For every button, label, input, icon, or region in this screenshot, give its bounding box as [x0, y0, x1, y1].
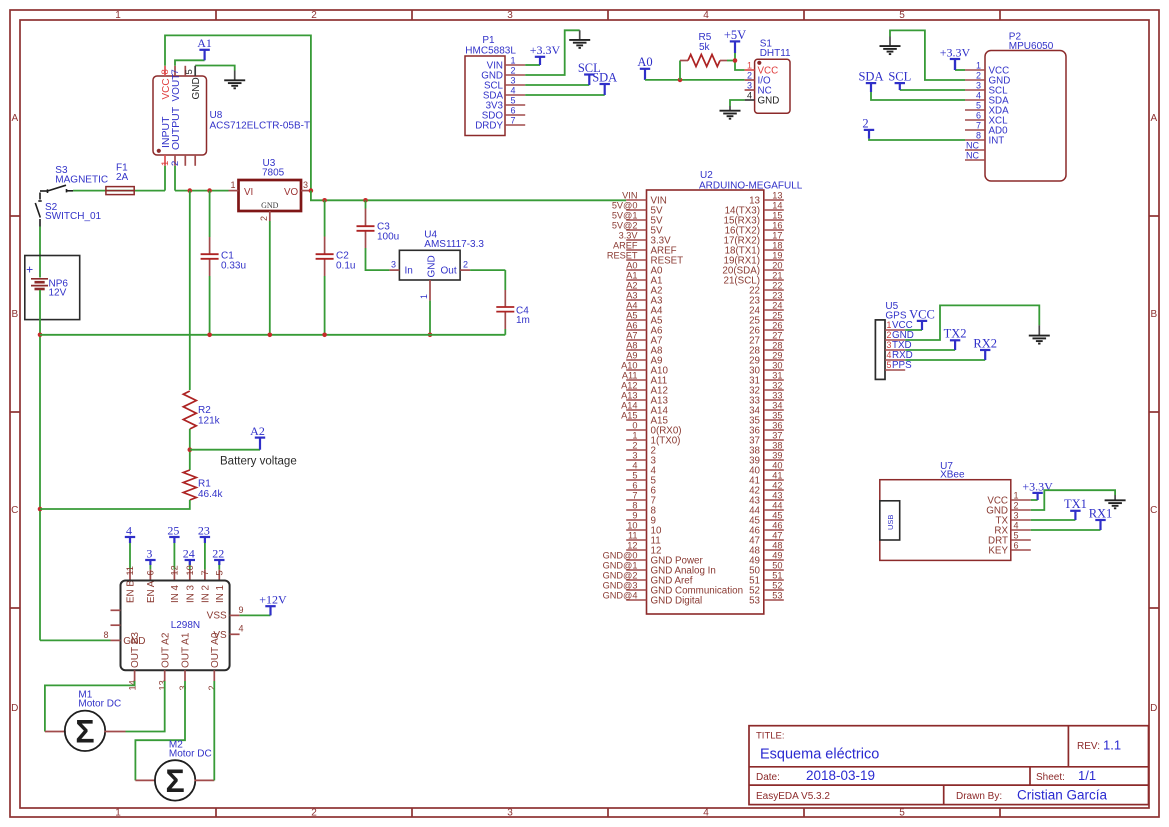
wire U5 TXD to flag TX2: [905, 349, 955, 351]
wire P1 VIN to +3.3V flag: [525, 64, 540, 66]
svg-text:7: 7: [976, 120, 981, 130]
connector U5 GPS body: [875, 320, 885, 380]
net flag +5V: [724, 28, 746, 53]
svg-text:5: 5: [887, 360, 892, 370]
U2 left pin A13 stub: [626, 399, 646, 401]
U2 left pin AREF stub: [626, 249, 646, 251]
U7 pin 6 stub: [1011, 549, 1031, 551]
U2 right pin 14 stub: [764, 209, 784, 211]
U7 pin 4 stub: [1011, 529, 1031, 531]
P1 pin 2 stub: [505, 74, 525, 76]
U2 right pin 38 stub: [764, 449, 784, 451]
wire L298N pin 5 to flag 22: [218, 560, 220, 570]
wire C4 riser top: [504, 270, 506, 290]
svg-text:A7: A7: [626, 330, 637, 340]
svg-text:34: 34: [772, 400, 782, 410]
svg-text:51: 51: [772, 570, 782, 580]
svg-text:3: 3: [391, 259, 396, 269]
svg-text:53: 53: [749, 595, 760, 606]
U2 left pin A0 stub: [626, 269, 646, 271]
net flag SDA: [858, 70, 883, 93]
svg-text:4: 4: [1014, 520, 1019, 530]
svg-text:28: 28: [772, 340, 782, 350]
svg-text:5: 5: [214, 570, 224, 575]
wire P2 GND to ground: [890, 30, 965, 80]
svg-text:GND: GND: [191, 77, 202, 99]
svg-text:+3.3V: +3.3V: [530, 43, 561, 57]
svg-text:2: 2: [311, 10, 317, 21]
svg-text:46: 46: [772, 520, 782, 530]
ground near P1: [569, 40, 590, 48]
net flag A1: [197, 36, 212, 60]
svg-text:7: 7: [511, 115, 516, 125]
svg-text:2: 2: [976, 70, 981, 80]
battery NP6 cells: [31, 279, 48, 289]
svg-text:6: 6: [145, 570, 155, 575]
svg-text:27: 27: [772, 330, 782, 340]
svg-text:A8: A8: [626, 340, 637, 350]
wire L298N pin3 to M2 left: [135, 681, 185, 780]
P2 pin 5 stub: [965, 109, 985, 111]
net flag RX2: [973, 336, 997, 360]
svg-text:A14: A14: [621, 400, 637, 410]
svg-text:0.1u: 0.1u: [336, 260, 355, 271]
net flag +3.3V: [530, 43, 561, 65]
svg-text:TX2: TX2: [944, 327, 967, 341]
svg-text:AMS1117-3.3: AMS1117-3.3: [424, 239, 484, 250]
connector P2 MPU6050 body: [985, 51, 1066, 182]
S1 pin 2 stub: [745, 79, 755, 81]
regulator U4 AMS1117-3.3 body: [399, 250, 460, 280]
U2 right pin 28 stub: [764, 349, 784, 351]
resistor R5 body: [688, 55, 720, 67]
svg-text:OUT A2: OUT A2: [160, 632, 171, 668]
S1 pin 4 stub: [745, 99, 755, 101]
svg-text:A15: A15: [621, 410, 637, 420]
svg-text:+3.3V: +3.3V: [940, 45, 971, 59]
U2 right pin 30 stub: [764, 369, 784, 371]
svg-text:A11: A11: [622, 370, 638, 380]
svg-text:Date:: Date:: [756, 772, 780, 783]
svg-text:Drawn By:: Drawn By:: [956, 791, 1002, 802]
U2 right pin 23 stub: [764, 299, 784, 301]
wire A0 to DHT I/O: [645, 79, 745, 81]
junction U3 VO output: [309, 188, 314, 193]
svg-text:A9: A9: [626, 350, 637, 360]
wire P1 GND to ground: [525, 30, 580, 75]
svg-text:In: In: [405, 265, 413, 276]
svg-text:IN 3: IN 3: [185, 584, 196, 603]
S1 pin 1 stub: [745, 69, 755, 71]
wire VSS to +12V flag: [240, 614, 271, 616]
junction C1 on GND rail: [207, 333, 212, 338]
resistor R1 body: [183, 470, 196, 500]
capacitor C4 lead/plates: [496, 290, 514, 329]
P2 pin 2 stub: [965, 79, 985, 81]
wire U4 GND to rail: [429, 301, 431, 335]
U2 right pin 19 stub: [764, 259, 784, 261]
svg-text:B: B: [11, 309, 18, 320]
U2 right pin 48 stub: [764, 549, 784, 551]
svg-text:6: 6: [511, 105, 516, 115]
svg-text:46.4k: 46.4k: [198, 489, 223, 500]
svg-text:OUTPUT: OUTPUT: [170, 106, 182, 150]
U2 right pin 20 stub: [764, 269, 784, 271]
wire C3 riser top: [365, 200, 367, 208]
svg-text:Battery voltage: Battery voltage: [220, 455, 297, 467]
wire L298N pin 7 to flag 23: [204, 537, 206, 570]
wire U7 TX to flag TX1: [1031, 519, 1076, 521]
svg-text:43: 43: [772, 490, 782, 500]
wire L298N pin 10 to flag 24: [189, 560, 191, 570]
junction +5V/R5/DHT: [733, 58, 738, 63]
P1 pin 5 stub: [505, 104, 525, 106]
svg-text:3: 3: [146, 546, 152, 560]
U2 left pin A15 stub: [626, 419, 646, 421]
U2 left pin GND@4 stub: [626, 599, 646, 601]
svg-text:25: 25: [772, 310, 782, 320]
svg-text:ACS712ELCTR-05B-T: ACS712ELCTR-05B-T: [210, 121, 311, 132]
connector P1 HMC5883L body: [465, 56, 505, 136]
net flag 24: [183, 546, 195, 565]
svg-text:A: A: [1150, 113, 1157, 124]
U2 left pin 4 stub: [626, 469, 646, 471]
svg-text:VCC: VCC: [909, 307, 935, 321]
svg-text:TX1: TX1: [1064, 497, 1087, 511]
wire +5V node down to DHT VCC: [735, 53, 745, 70]
svg-text:MAGNETIC: MAGNETIC: [55, 174, 108, 185]
resistor R5 left lead: [680, 60, 688, 62]
U7 pin 2 stub: [1011, 509, 1031, 511]
svg-text:9: 9: [239, 605, 244, 615]
svg-text:3: 3: [511, 75, 516, 85]
U2 right pin 18 stub: [764, 249, 784, 251]
svg-text:TITLE:: TITLE:: [756, 731, 785, 742]
svg-text:VI: VI: [244, 187, 253, 198]
svg-text:10: 10: [185, 565, 195, 575]
resistor R5 right lead: [720, 60, 727, 62]
U2 left pin 5 stub: [626, 479, 646, 481]
wire C4 to GND rail: [504, 329, 506, 335]
wire R2 riser from VI rail: [189, 191, 191, 390]
svg-text:RESET: RESET: [607, 250, 638, 260]
svg-text:8: 8: [103, 630, 108, 640]
svg-text:Σ: Σ: [165, 763, 184, 799]
U8 bottom unconnected stubs: [184, 155, 186, 166]
U2 right pin 35 stub: [764, 419, 784, 421]
junction A0/R5: [678, 78, 683, 83]
U8 pin-1 marker dot: [157, 149, 161, 153]
svg-text:GND: GND: [427, 255, 438, 277]
svg-text:A13: A13: [621, 390, 637, 400]
svg-text:2: 2: [862, 116, 868, 130]
wire R5 left riser: [679, 61, 681, 80]
svg-text:5k: 5k: [699, 42, 711, 53]
svg-text:29: 29: [772, 350, 782, 360]
svg-text:12V: 12V: [49, 287, 67, 298]
net flag A0: [637, 55, 652, 80]
svg-text:47: 47: [772, 530, 782, 540]
wire U8 VOUT pin7 to net flag A1: [175, 60, 205, 66]
S1 pin-1 marker dot: [757, 61, 761, 65]
U5 pin 4 stub: [885, 359, 905, 361]
svg-text:1: 1: [419, 294, 429, 299]
wire S2 to battery NP6: [39, 227, 41, 278]
svg-text:Out: Out: [441, 265, 457, 276]
svg-text:3: 3: [887, 340, 892, 350]
U2 left pin GND@1 stub: [626, 569, 646, 571]
svg-text:22: 22: [772, 280, 782, 290]
net flag 23: [198, 523, 210, 543]
svg-text:48: 48: [772, 540, 782, 550]
U5 pin 3 stub: [885, 349, 905, 351]
svg-text:+5V: +5V: [724, 28, 746, 42]
svg-text:35: 35: [772, 410, 782, 420]
net flag +3.3V: [940, 45, 971, 70]
U7 pin 1 stub: [1011, 499, 1031, 501]
motor M1 body: [65, 711, 105, 751]
svg-text:3: 3: [747, 80, 752, 90]
wire P1 SDA to flag SDA: [525, 94, 605, 96]
wire U7 GND to ground: [1031, 490, 1115, 510]
svg-text:GND: GND: [758, 96, 780, 107]
wire S1 GND to ground: [730, 100, 745, 106]
svg-text:EN B: EN B: [126, 580, 137, 603]
svg-text:22: 22: [212, 546, 224, 560]
U2 right pin 44 stub: [764, 509, 784, 511]
svg-text:5: 5: [976, 100, 981, 110]
svg-text:IN 1: IN 1: [215, 585, 226, 603]
svg-text:NC: NC: [966, 150, 979, 160]
svg-text:49: 49: [772, 550, 782, 560]
svg-text:A3: A3: [626, 290, 637, 300]
svg-text:3: 3: [507, 807, 513, 818]
svg-text:SWITCH_01: SWITCH_01: [45, 211, 102, 222]
U8 pin 7 VOUT stub: [174, 66, 176, 76]
wire L298N pin 11 to flag 4: [129, 537, 131, 570]
U2 left pin 12 stub: [626, 549, 646, 551]
net flag SCL: [888, 70, 911, 91]
L298N pin 13 stub (bottom): [164, 670, 166, 681]
svg-text:2: 2: [463, 259, 468, 269]
U2 right pin 43 stub: [764, 499, 784, 501]
L298N pin 11 stub (top): [129, 570, 131, 581]
U2 left pin A7 stub: [626, 339, 646, 341]
svg-text:5V@2: 5V@2: [612, 220, 638, 230]
L298N pin 10 stub (top): [189, 570, 191, 581]
svg-text:USB: USB: [886, 515, 895, 530]
svg-text:GND@2: GND@2: [603, 570, 638, 580]
wire C3 to U4 In: [366, 248, 390, 270]
U2 left pin A10 stub: [626, 369, 646, 371]
net flag A2: [250, 424, 265, 450]
svg-text:45: 45: [772, 510, 782, 520]
U5 pin 1 stub: [885, 329, 905, 331]
U2 left pin 6 stub: [626, 489, 646, 491]
U2 right pin 50 stub: [764, 569, 784, 571]
svg-text:D: D: [1150, 703, 1157, 714]
wire U8 pin2 OUTPUT to U3 VI: [174, 166, 176, 191]
svg-text:1m: 1m: [516, 315, 530, 326]
svg-text:IN 2: IN 2: [201, 585, 212, 603]
U2 left pin 7 stub: [626, 499, 646, 501]
L298N left stub (unconnected upper): [111, 609, 121, 611]
U2 left pin GND@2 stub: [626, 579, 646, 581]
U4 pin 3 stub: [389, 269, 399, 271]
svg-text:100u: 100u: [377, 232, 399, 243]
svg-text:SCL: SCL: [888, 70, 911, 84]
svg-text:5: 5: [511, 95, 516, 105]
switch S2 SWITCH_01: [35, 193, 41, 227]
svg-text:A6: A6: [626, 320, 637, 330]
U3 pin 3 stub: [301, 190, 311, 192]
L298N pin 12 stub (top): [173, 570, 175, 581]
motor M1 left lead: [45, 731, 66, 733]
svg-text:5: 5: [184, 69, 195, 74]
svg-text:L298N: L298N: [171, 620, 200, 631]
svg-text:40: 40: [772, 460, 782, 470]
svg-text:4: 4: [703, 10, 709, 21]
wire L298N GND pin8 from battery rail: [40, 639, 111, 641]
svg-text:13: 13: [772, 190, 782, 200]
wire P2 SDA to flag SDA: [871, 92, 965, 100]
svg-text:3: 3: [178, 685, 188, 690]
L298N pin 2 stub (bottom): [213, 670, 215, 681]
U2 right pin 51 stub: [764, 579, 784, 581]
wire U5 GND to ground: [905, 305, 1039, 340]
P1 pin 7 stub: [505, 124, 525, 126]
svg-text:15: 15: [772, 210, 782, 220]
wire C2 to GND rail: [324, 276, 326, 335]
U2 left pin 5V@2 stub: [626, 229, 646, 231]
U2 left pin 5V@1 stub: [626, 219, 646, 221]
net flag TX2: [944, 327, 967, 350]
U2 right pin 13 stub: [764, 199, 784, 201]
svg-text:2: 2: [887, 330, 892, 340]
U2 right pin 49 stub: [764, 559, 784, 561]
wire P1 SCL to flag SCL: [525, 84, 589, 86]
junction C1 tap on VI rail: [207, 188, 212, 193]
svg-text:25: 25: [167, 523, 179, 537]
svg-text:A4: A4: [626, 300, 637, 310]
U2 left pin A3 stub: [626, 299, 646, 301]
svg-text:24: 24: [183, 546, 195, 560]
svg-text:3: 3: [976, 80, 981, 90]
svg-text:DRDY: DRDY: [475, 120, 503, 131]
svg-text:18: 18: [772, 240, 782, 250]
net flag SCL: [578, 61, 601, 85]
svg-text:0.33u: 0.33u: [221, 260, 246, 271]
junction battery / GND rail: [38, 333, 43, 338]
svg-text:A1: A1: [197, 36, 212, 50]
svg-text:5: 5: [632, 470, 637, 480]
net flag VCC: [909, 307, 935, 330]
U8 pin 2 OUTPUT stub: [174, 155, 176, 166]
svg-text:D: D: [11, 703, 18, 714]
U2 right pin 34 stub: [764, 409, 784, 411]
wire M1 right to L298N pin13: [126, 681, 165, 732]
svg-text:OUT A0: OUT A0: [210, 632, 221, 668]
svg-text:6: 6: [976, 110, 981, 120]
svg-text:5: 5: [1014, 530, 1019, 540]
U2 left pin 0 stub: [626, 429, 646, 431]
svg-text:1: 1: [115, 807, 121, 818]
svg-text:R1: R1: [198, 479, 211, 490]
svg-text:2018-03-19: 2018-03-19: [806, 768, 875, 783]
U2 left pin RESET stub: [626, 259, 646, 261]
svg-text:2: 2: [207, 685, 217, 690]
svg-text:2: 2: [259, 216, 269, 221]
title block border: [749, 726, 1149, 805]
svg-text:1.1: 1.1: [1103, 738, 1121, 753]
svg-text:C: C: [1150, 505, 1157, 516]
svg-text:2: 2: [747, 70, 752, 80]
svg-text:INT: INT: [989, 135, 1005, 146]
svg-text:12: 12: [169, 565, 179, 575]
svg-text:4: 4: [747, 90, 752, 100]
P2 pin NC stub: [965, 159, 985, 161]
svg-text:NC: NC: [966, 140, 979, 150]
U8 pin 5 GND stub: [194, 66, 196, 76]
U5 pin 5 stub: [885, 369, 905, 371]
U2 right pin 41 stub: [764, 479, 784, 481]
P1 pin 4 stub: [505, 94, 525, 96]
svg-text:6: 6: [1014, 540, 1019, 550]
wire L298N pin 6 to flag 3: [149, 560, 151, 570]
net flag +3.3V: [1022, 479, 1053, 500]
svg-text:7805: 7805: [262, 167, 285, 178]
svg-text:GND@0: GND@0: [603, 550, 638, 560]
U2 left pin A4 stub: [626, 309, 646, 311]
motor M2 body: [155, 760, 195, 800]
svg-text:GND@4: GND@4: [603, 590, 638, 600]
ground near P2: [880, 46, 901, 54]
U2 right pin 45 stub: [764, 519, 784, 521]
svg-text:OUT B3: OUT B3: [130, 632, 141, 668]
svg-text:3: 3: [632, 450, 637, 460]
svg-text:26: 26: [772, 320, 782, 330]
ic L298N body: [121, 581, 230, 671]
U2 right pin 26 stub: [764, 329, 784, 331]
U2 right pin 39 stub: [764, 459, 784, 461]
module U7 XBee body: [880, 480, 1011, 561]
U2 left pin A6 stub: [626, 329, 646, 331]
wire L298N pin 12 to flag 25: [173, 537, 175, 570]
svg-text:4: 4: [239, 624, 244, 634]
U2 left pin A14 stub: [626, 409, 646, 411]
wire C1 to GND rail: [209, 276, 211, 335]
capacitor C1 lead/plates: [201, 237, 219, 276]
U8 pin 1 INPUT stub: [164, 155, 166, 166]
svg-text:6: 6: [632, 480, 637, 490]
capacitor C3 lead/plates: [357, 209, 375, 249]
svg-text:VOUT: VOUT: [171, 74, 182, 102]
U2 right pin 31 stub: [764, 379, 784, 381]
svg-text:7: 7: [170, 69, 181, 74]
wire U5 VCC to flag VCC: [905, 329, 922, 331]
U2 right pin 24 stub: [764, 309, 784, 311]
svg-text:5: 5: [899, 10, 905, 21]
svg-text:23: 23: [772, 290, 782, 300]
svg-text:41: 41: [772, 470, 782, 480]
U2 right pin 21 stub: [764, 279, 784, 281]
P2 pin 1 stub: [965, 69, 985, 71]
U2 left pin 3 stub: [626, 459, 646, 461]
U2 left pin A9 stub: [626, 359, 646, 361]
U2 right pin 27 stub: [764, 339, 784, 341]
svg-text:3: 3: [303, 180, 308, 190]
junction C3 tap on VO rail: [363, 198, 368, 203]
